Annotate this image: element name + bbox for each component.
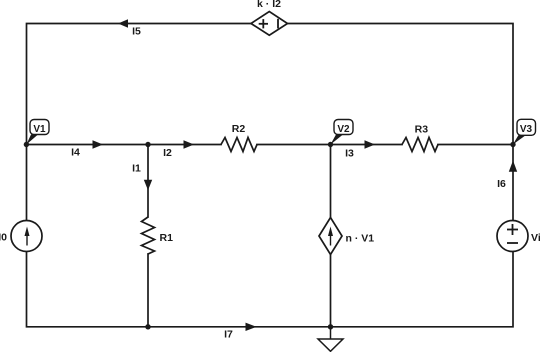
resistor R3 [402,138,438,152]
svg-text:V2: V2 [337,124,350,135]
svg-text:I3: I3 [345,147,354,159]
svg-text:V1: V1 [33,124,46,135]
svg-text:I0: I0 [0,232,7,244]
node R1-bottom junction [145,324,150,329]
current arrow I5 [118,19,128,27]
node V2 callout [331,120,354,145]
svg-text:I4: I4 [71,147,80,159]
wire middle V1 to R2 [27,144,222,146]
svg-text:I5: I5 [132,26,141,38]
svg-text:k · I2: k · I2 [257,0,281,10]
current arrow I4 [93,140,104,148]
wire V2 to n·V1 source [330,145,332,218]
wire R3 to V3 [438,144,513,146]
wire top-right segment [288,24,513,221]
current source I0 [11,221,42,252]
svg-text:R2: R2 [232,123,246,135]
current arrow I2 [184,140,195,148]
voltage source Vi [497,221,528,252]
wire n·V1 source to bottom [330,255,332,327]
wire node to R1 [147,145,149,218]
svg-text:I6: I6 [497,178,506,190]
svg-text:I1: I1 [132,163,141,175]
ground [318,327,343,352]
resistor R2 [221,138,257,152]
svg-text:Vi: Vi [531,232,540,244]
node V2 junction [328,142,333,147]
current arrow I1 [144,180,152,191]
dependent current source n·V1 [319,218,342,255]
wire left-bottom segment [27,252,514,327]
node V1 callout [26,120,49,145]
svg-text:I7: I7 [224,329,233,341]
wire R1 to bottom [147,254,149,327]
svg-text:V3: V3 [520,124,533,135]
node V1 junction [24,142,29,147]
node V3 callout [513,119,536,144]
current arrow I6 [509,161,517,172]
wire R2 to V2 [257,144,402,146]
svg-text:R1: R1 [160,232,174,244]
svg-text:R3: R3 [415,124,429,136]
current arrow I7 [246,323,257,331]
resistor R1 [142,217,155,254]
wire top-left segment [27,24,252,221]
current arrow I3 [365,140,376,148]
svg-text:I2: I2 [163,147,172,159]
node R1-top junction [145,142,150,147]
node V3 junction [510,142,515,147]
dependent voltage source k·I2 [251,12,288,36]
node ground junction [328,324,333,329]
svg-text:n · V1: n · V1 [346,233,375,245]
